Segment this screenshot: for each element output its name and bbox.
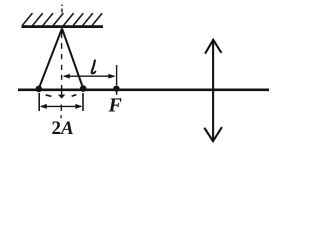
- pendulum string right extreme: [62, 29, 83, 89]
- optical axis: [18, 89, 269, 92]
- lens: [205, 40, 222, 141]
- 2A dimension arrow: [40, 104, 83, 109]
- trajectory arc dash right: [72, 95, 77, 97]
- label l: [92, 60, 96, 73]
- trajectory arc dash left: [46, 95, 52, 96]
- dashed vertical centre line: [60, 5, 63, 119]
- svg-text:F: F: [108, 95, 123, 117]
- pendulum string left extreme: [39, 29, 62, 89]
- extension tick at F: [116, 65, 118, 95]
- ceiling line: [22, 25, 104, 28]
- extension tick left: [38, 93, 40, 111]
- bob right extreme: [80, 85, 87, 92]
- equilibrium down arrow: [58, 91, 65, 99]
- svg-text:2A: 2A: [52, 118, 74, 139]
- bob left extreme: [36, 86, 43, 93]
- l dimension arrow: [63, 74, 116, 79]
- ceiling hatching: [23, 14, 102, 26]
- focal point F dot: [113, 85, 119, 91]
- pivot wedge: [60, 28, 65, 34]
- extension tick right: [82, 93, 84, 111]
